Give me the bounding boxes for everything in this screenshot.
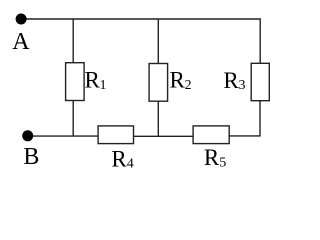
svg-text:5: 5 [219,155,226,170]
svg-text:R: R [85,68,101,93]
svg-text:2: 2 [185,78,192,93]
svg-text:B: B [23,144,39,170]
svg-text:R: R [170,68,186,93]
svg-text:A: A [12,29,30,55]
svg-text:R: R [111,146,127,171]
svg-text:R: R [204,145,220,170]
svg-text:3: 3 [239,78,246,93]
svg-text:1: 1 [100,78,107,93]
svg-text:R: R [223,68,239,93]
svg-text:4: 4 [127,156,134,171]
